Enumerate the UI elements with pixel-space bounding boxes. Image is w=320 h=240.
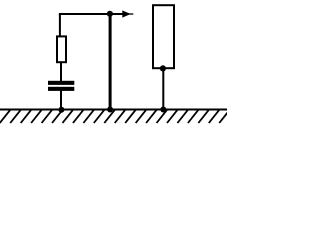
junction dot: bottom terminal of right box xyxy=(160,65,166,71)
wire: thick middle vertical line xyxy=(109,13,112,110)
wire: right box to ground xyxy=(162,68,164,110)
junction dot: middle line at ground xyxy=(107,107,113,113)
capacitor bottom plate xyxy=(48,87,74,91)
resistor (box symbol) xyxy=(57,36,66,62)
arrowhead (signal direction, pointing right) xyxy=(122,10,131,17)
wire: resistor to capacitor xyxy=(60,62,62,82)
ground rail (horizontal line) xyxy=(0,109,227,111)
wire: top horizontal from left corner to arrow xyxy=(59,13,124,15)
junction dot: right branch at ground xyxy=(160,107,166,113)
wire: left vertical drop from top wire to resistor xyxy=(59,13,61,37)
capacitor top plate xyxy=(48,81,74,85)
junction dot: capacitor branch at ground xyxy=(58,107,64,113)
wire: capacitor to ground xyxy=(60,90,62,110)
component box (right rectangle) xyxy=(153,5,174,68)
ground plane hatching xyxy=(0,110,230,123)
junction dot: middle line at top wire xyxy=(107,11,113,17)
wire: short stub beyond arrow tip xyxy=(129,13,133,14)
